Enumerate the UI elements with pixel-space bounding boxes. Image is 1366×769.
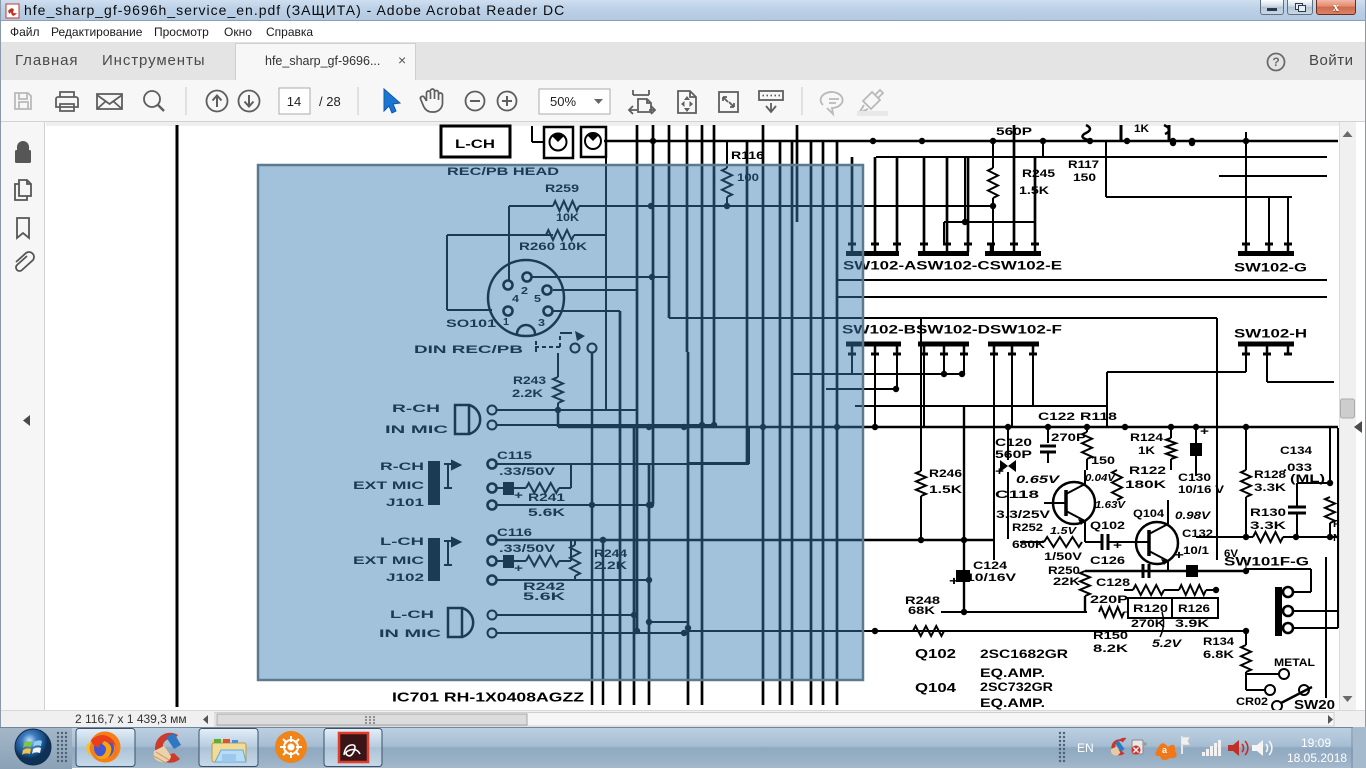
transistor Q104	[1128, 508, 1178, 565]
label J101	[386, 497, 424, 509]
svg-text:1.5K: 1.5K	[1019, 185, 1049, 197]
wire vertical bus	[762, 125, 765, 705]
wire	[941, 354, 947, 377]
label R117	[1068, 159, 1099, 171]
microphone jack L-CH IN MIC	[448, 608, 497, 638]
label CR02	[1236, 696, 1268, 708]
label C115	[497, 450, 532, 462]
wire	[1245, 560, 1247, 571]
label C128	[1096, 577, 1130, 589]
transistor Q102	[1044, 482, 1125, 532]
svg-text:1K: 1K	[1134, 123, 1149, 135]
label 560P	[996, 126, 1032, 138]
switch SW102-G	[1238, 244, 1294, 254]
wire	[447, 235, 492, 310]
svg-text:1.63V: 1.63V	[1095, 500, 1127, 511]
wire	[1325, 557, 1327, 698]
resistor R253 1/50V	[1020, 537, 1083, 563]
voltage note 0.04V	[1085, 473, 1117, 484]
wire	[1167, 561, 1169, 571]
wire vertical bus low	[822, 352, 825, 705]
resistor R126 body	[1179, 585, 1219, 595]
wire	[959, 354, 965, 377]
svg-text:+: +	[1200, 426, 1209, 438]
microphone jack R-CH IN MIC	[455, 405, 497, 434]
resistor R248	[905, 595, 944, 636]
svg-text:Q102: Q102	[1090, 520, 1125, 532]
svg-text:R245: R245	[1022, 168, 1055, 180]
svg-text:R118: R118	[1080, 411, 1117, 423]
label R252	[1012, 522, 1043, 534]
svg-text:50%: 50%	[550, 94, 576, 109]
label R-CH	[392, 403, 440, 415]
wire	[1293, 627, 1338, 629]
svg-text:IC701 RH-1X0408AGZZ: IC701 RH-1X0408AGZZ	[392, 689, 584, 704]
svg-text:EQ.AMP.: EQ.AMP.	[980, 666, 1045, 680]
svg-text:C118: C118	[995, 489, 1039, 501]
label Q104 type	[915, 680, 1053, 710]
svg-text:1.5V: 1.5V	[1050, 526, 1078, 537]
label .33/50V b	[499, 543, 556, 555]
svg-text:Q102: Q102	[915, 646, 956, 661]
wire vertical bus	[701, 125, 704, 705]
svg-text:SW102-ASW102-CSW102-E: SW102-ASW102-CSW102-E	[843, 259, 1062, 273]
wire pin3	[553, 310, 620, 312]
component name box R120 R126	[1128, 598, 1218, 618]
label 3.3/25V	[996, 509, 1051, 521]
capacitor C122	[1040, 427, 1086, 463]
label R-CH ext	[380, 461, 424, 473]
wire vertical bus low	[810, 352, 813, 705]
capacitor C115	[497, 482, 526, 502]
svg-text:R128: R128	[1254, 469, 1286, 481]
wire corner	[688, 352, 749, 463]
svg-text:C126: C126	[1090, 555, 1125, 567]
svg-text:?: ?	[1272, 55, 1279, 69]
voltage note 1.63V	[1095, 500, 1127, 511]
switch SW102-F	[988, 344, 1039, 354]
svg-text:1/50V: 1/50V	[1044, 551, 1083, 563]
wire	[1124, 611, 1128, 613]
resistor R250	[1048, 565, 1090, 612]
resistor R118 body	[1082, 427, 1115, 470]
svg-text:EQ.AMP.: EQ.AMP.	[980, 696, 1045, 710]
svg-text:5.2V: 5.2V	[1152, 638, 1183, 650]
switch SW102-D	[918, 344, 969, 354]
wire segment	[1219, 175, 1327, 177]
svg-text:SW102-G: SW102-G	[1234, 261, 1307, 275]
svg-text:1.5K: 1.5K	[929, 484, 962, 496]
wire	[497, 409, 637, 411]
wire switch feed	[946, 157, 949, 244]
wire	[1337, 428, 1339, 628]
label R118	[1080, 411, 1117, 423]
svg-text:150: 150	[1091, 455, 1115, 467]
wire	[837, 296, 1327, 298]
wire vertical bus low	[687, 352, 690, 705]
wire	[1167, 500, 1169, 524]
wire	[1084, 521, 1086, 542]
label SO101	[446, 318, 496, 330]
label C116	[497, 527, 532, 539]
svg-text:3.9K: 3.9K	[1175, 618, 1209, 630]
wire vertical bus	[636, 125, 639, 631]
voltage note 0.65V	[1016, 474, 1061, 486]
svg-text:R122: R122	[1129, 465, 1166, 477]
wire corner	[748, 427, 750, 464]
connector J102 ext mic	[428, 536, 497, 585]
label J102	[386, 572, 424, 584]
wire vertical bus	[779, 141, 782, 705]
wire segment	[649, 621, 688, 623]
wire switch feed	[1034, 157, 1037, 244]
label 150	[1073, 172, 1096, 184]
wire switch feed	[967, 157, 970, 244]
wire	[855, 405, 1107, 407]
svg-text:560P: 560P	[996, 126, 1032, 138]
capacitor C134	[1288, 480, 1333, 537]
wire	[508, 206, 510, 280]
label IN MIC bottom	[379, 628, 441, 640]
connector J101 ext mic	[428, 460, 497, 510]
jack J-1	[544, 127, 573, 158]
wire vertical bus	[810, 141, 813, 352]
wire	[1246, 569, 1311, 592]
svg-text:+: +	[995, 466, 1004, 478]
svg-text:0.65V: 0.65V	[1016, 474, 1061, 486]
inductor hook	[1082, 125, 1090, 140]
switch SW102-C	[918, 244, 972, 254]
resistor R243	[512, 353, 563, 413]
resistor R130 body	[1196, 532, 1338, 542]
wire	[1267, 381, 1334, 383]
wire pin2 to bus	[532, 274, 669, 280]
svg-text:10/1: 10/1	[1183, 545, 1209, 557]
resistor R260	[447, 230, 606, 253]
svg-text:R124: R124	[1130, 432, 1164, 444]
label SW102-ACE row	[843, 259, 1062, 273]
label .33/50V	[499, 466, 556, 478]
wire switch feed	[1013, 125, 1016, 244]
resistor R241	[526, 464, 571, 519]
resistor R134	[1203, 631, 1251, 690]
wire corner	[1106, 141, 1292, 197]
resistor R259	[509, 183, 993, 224]
node junction 540	[600, 537, 606, 543]
wire pin5 to bus	[553, 289, 637, 291]
svg-text:SW102-H: SW102-H	[1234, 327, 1307, 341]
switch SW102-A	[846, 244, 901, 254]
svg-text:METAL: METAL	[1274, 657, 1315, 669]
switch SW102-E	[985, 244, 1041, 254]
wire corner	[648, 462, 650, 464]
switch SW102-H	[1238, 344, 1294, 354]
svg-text:180K: 180K	[1125, 479, 1166, 491]
label 3.3K	[1250, 520, 1286, 532]
svg-text:L-CH: L-CH	[455, 137, 495, 151]
label SW102-G	[1234, 261, 1307, 275]
wire	[497, 537, 993, 543]
wire main bus	[558, 410, 1338, 430]
wire page left border	[176, 125, 179, 707]
wire	[669, 317, 1217, 319]
resistor R245	[988, 141, 1055, 252]
connector SO101 DIN socket	[488, 260, 564, 336]
wire vertical bus	[713, 125, 716, 425]
wire long bus	[688, 628, 1249, 634]
label SW101F-G	[1224, 555, 1309, 569]
label EXT MIC b	[353, 555, 424, 567]
voltage note 0.98V	[1175, 510, 1212, 522]
wire vertical bus	[796, 125, 799, 222]
label 560P b	[995, 449, 1032, 461]
capacitor C126	[1085, 534, 1128, 567]
wire	[497, 422, 717, 428]
wire	[872, 354, 878, 430]
label 6V	[1224, 548, 1239, 560]
svg-text:C120: C120	[995, 437, 1032, 449]
svg-text:CR02: CR02	[1236, 696, 1268, 708]
wire vertical bus	[791, 141, 794, 374]
svg-text:C122: C122	[1038, 411, 1075, 423]
wire	[1084, 470, 1086, 484]
label SW102-H	[1234, 327, 1307, 341]
wire	[532, 126, 544, 142]
svg-text:R246: R246	[929, 468, 962, 480]
label Q102 type	[915, 646, 1068, 680]
label C120	[995, 437, 1032, 449]
label METAL	[1274, 657, 1315, 669]
svg-text:680K: 680K	[1012, 539, 1045, 551]
svg-text:R252: R252	[1012, 522, 1043, 534]
connector SW101F-G	[1275, 587, 1293, 636]
wire	[1011, 354, 1013, 427]
svg-text:0.04V: 0.04V	[1085, 473, 1117, 484]
svg-text:8.2K: 8.2K	[1093, 643, 1128, 655]
svg-text:220P: 220P	[1090, 594, 1128, 606]
label DIN REC/PB	[414, 344, 523, 356]
wire switch feed	[851, 157, 854, 244]
label C132	[1182, 528, 1213, 540]
jack J-2	[581, 127, 606, 157]
label 10/1	[1183, 545, 1209, 557]
label 3.9K	[1175, 618, 1209, 630]
wire vertical bus low	[619, 311, 622, 705]
svg-text:1K: 1K	[1138, 445, 1155, 457]
svg-text:C128: C128	[1096, 577, 1130, 589]
wire vertical bus low	[791, 374, 794, 705]
wire	[497, 579, 649, 581]
wire	[605, 157, 607, 410]
wire	[923, 354, 925, 427]
wire	[1106, 372, 1108, 427]
svg-text:R117: R117	[1068, 159, 1099, 171]
svg-text:R134: R134	[1203, 636, 1235, 648]
wire	[1293, 610, 1338, 612]
wire vertical bus low	[648, 463, 651, 705]
head block L-CH	[441, 126, 510, 157]
wire	[497, 463, 749, 465]
svg-text:68K: 68K	[908, 605, 935, 617]
resistor R120 body	[1124, 585, 1179, 595]
svg-text:2SC1682GR: 2SC1682GR	[980, 647, 1068, 661]
svg-text:C124: C124	[973, 560, 1008, 572]
voltage note 5.2V	[1152, 612, 1183, 650]
svg-text:Q104: Q104	[1133, 508, 1165, 520]
capacitor C120 bowtie	[995, 427, 1016, 539]
capacitor C124	[949, 406, 1017, 612]
svg-text:560P: 560P	[995, 449, 1032, 461]
wire dashed DIN switch	[535, 331, 597, 353]
wire switch feed	[896, 157, 899, 244]
capacitor C128 plates	[1143, 564, 1149, 578]
label 220P	[1090, 594, 1128, 606]
wire	[497, 630, 688, 636]
wire	[837, 279, 1327, 281]
wire vertical bus	[822, 141, 825, 352]
wire bracket	[944, 157, 1035, 244]
resistor R246	[916, 318, 962, 543]
wire stub	[1164, 125, 1169, 141]
svg-text:2SC732GR: 2SC732GR	[980, 680, 1053, 694]
wire top bus	[604, 138, 1338, 144]
svg-text:+: +	[1113, 540, 1122, 552]
label EXT MIC	[353, 480, 424, 492]
wire	[792, 373, 964, 375]
resistor R132	[1325, 427, 1342, 544]
svg-text:22K: 22K	[1053, 576, 1080, 588]
wire	[993, 354, 995, 560]
svg-text:150: 150	[1073, 172, 1096, 184]
wire second bus	[876, 141, 1327, 157]
switch SW102-B	[846, 344, 901, 354]
label L-CH ext	[380, 536, 424, 548]
wire vertical bus	[746, 141, 749, 463]
wire vertical bus low2	[592, 353, 603, 705]
label 1K	[1134, 123, 1149, 135]
wire	[497, 612, 637, 618]
label (ML)	[1290, 473, 1325, 485]
wire vertical bus	[652, 125, 655, 504]
label IC701	[392, 689, 584, 704]
wire	[497, 502, 654, 508]
svg-text:14: 14	[287, 94, 301, 109]
svg-text:3.3/25V: 3.3/25V	[996, 509, 1051, 521]
voltage note 1.5V	[1050, 526, 1078, 537]
wire	[1032, 354, 1034, 406]
svg-text:3.3K: 3.3K	[1254, 482, 1286, 494]
svg-text:0.98V: 0.98V	[1175, 510, 1212, 522]
wire	[941, 609, 1087, 615]
wire switch feed	[923, 157, 926, 244]
resistor R124	[1130, 427, 1176, 470]
wire	[1245, 354, 1247, 372]
resistor R150	[1093, 607, 1128, 655]
svg-text:19:09: 19:09	[1301, 736, 1331, 750]
wire	[1268, 197, 1270, 244]
label 680K	[1012, 539, 1045, 551]
switch SW20 contacts	[1246, 669, 1312, 711]
wire	[1085, 568, 1249, 574]
capacitor C132 body	[1174, 548, 1198, 577]
label R130	[1250, 507, 1286, 519]
svg-text:EN: EN	[1077, 741, 1094, 755]
resistor R244	[570, 540, 628, 580]
resistor R116	[722, 141, 764, 206]
wire	[826, 388, 897, 390]
svg-text:SW101F-G: SW101F-G	[1224, 555, 1309, 569]
label C122	[1038, 411, 1075, 423]
resistor R128	[1241, 427, 1286, 537]
resistor R242	[523, 540, 571, 603]
wire vertical bus	[836, 141, 839, 705]
wire vertical bus low	[633, 425, 636, 705]
wire stub	[1120, 125, 1123, 141]
wire	[1245, 132, 1247, 244]
capacitor C116	[497, 555, 526, 575]
svg-text:+: +	[949, 574, 959, 588]
capacitor C130	[1178, 426, 1225, 496]
label .033	[1283, 462, 1312, 474]
svg-text:+: +	[1174, 548, 1184, 562]
wire	[851, 354, 853, 374]
label C118	[995, 489, 1039, 501]
label REC/PB HEAD	[447, 166, 559, 178]
svg-text:C132: C132	[1182, 528, 1213, 540]
wire vertical bus	[686, 125, 689, 352]
label C134	[1280, 445, 1313, 457]
label SW20 bold	[1294, 697, 1335, 712]
svg-text:R126: R126	[1178, 603, 1210, 615]
wire	[1216, 318, 1218, 560]
wire	[1107, 371, 1246, 373]
svg-text:10/16V: 10/16V	[966, 572, 1017, 584]
label SW102-BDF row	[842, 323, 1062, 337]
svg-text:Q104: Q104	[915, 680, 957, 695]
wire	[1266, 354, 1268, 382]
label L-CH bottom	[390, 609, 434, 621]
svg-text:/ 28: / 28	[319, 94, 341, 109]
wire	[1287, 197, 1289, 244]
label IN MIC	[385, 424, 448, 436]
svg-text:270K: 270K	[1131, 618, 1165, 630]
wire vertical bus	[668, 125, 671, 318]
svg-text:18.05.2018: 18.05.2018	[1287, 751, 1347, 765]
node junction	[1170, 140, 1195, 146]
resistor R122	[1112, 465, 1166, 500]
svg-text:C130: C130	[1178, 472, 1211, 484]
svg-text:C134: C134	[1280, 445, 1313, 457]
selection highlight overlay	[258, 165, 863, 680]
svg-text:6.8K: 6.8K	[1203, 649, 1234, 661]
svg-text:SW102-BSW102-DSW102-F: SW102-BSW102-DSW102-F	[842, 323, 1062, 337]
label 270K	[1131, 618, 1165, 630]
wire switch feed	[874, 157, 877, 244]
svg-text:R130: R130	[1250, 507, 1286, 519]
wire	[893, 354, 899, 392]
node junctions	[589, 502, 691, 634]
